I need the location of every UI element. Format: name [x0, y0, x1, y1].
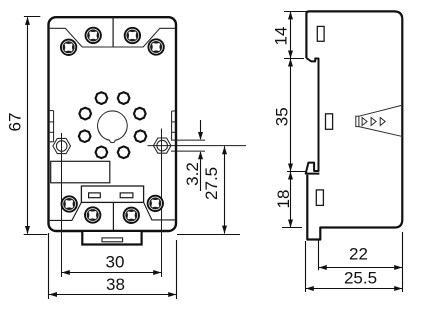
screw bottom inner-right: [124, 208, 139, 223]
hex nut right: [153, 138, 171, 153]
hex nut left: [53, 138, 71, 153]
octagon pin 4: [134, 108, 146, 120]
centre axis line left nut / 30 extension: [61, 133, 63, 277]
tab slot: [102, 238, 123, 242]
screw bottom inner-left: [85, 207, 100, 222]
upper claw: [306, 58, 320, 174]
slot edge extension lines (3.2 slot): [171, 139, 205, 141]
top moulding line left: [50, 28, 175, 47]
left edge ladder: [50, 111, 54, 142]
top centre divider line: [112, 17, 114, 47]
screw bottom outer-right: [148, 196, 163, 211]
release funnel: [356, 106, 401, 137]
octagon pin 5: [79, 130, 91, 142]
octagon pin 8: [118, 146, 130, 158]
dimension 25.5: [306, 241, 403, 292]
side rect middle: [326, 114, 333, 130]
svg-text:18: 18: [274, 190, 293, 209]
middle terminal box: [81, 186, 143, 202]
octagon pin 6: [135, 130, 147, 142]
screw top inner-right: [125, 28, 140, 43]
screw bottom outer-left: [61, 196, 76, 211]
svg-text:3.2: 3.2: [183, 162, 202, 186]
svg-text:67: 67: [6, 113, 25, 132]
bottom tab: [82, 232, 141, 245]
side rect top: [317, 26, 324, 41]
centre circle with keyway: [98, 111, 128, 143]
side dims 14 / 35 / 18 chain: [271, 11, 307, 227]
dimension 22: [319, 232, 403, 292]
bottom moulding left: [50, 202, 82, 220]
bottom moulding right: [144, 202, 175, 220]
svg-text:14: 14: [271, 27, 290, 46]
dimension 30: [62, 253, 162, 276]
centre line through right nut (27.5 reference): [148, 145, 247, 147]
svg-text:38: 38: [106, 275, 125, 294]
dimension 3.2 leader: [183, 120, 203, 191]
socket body outline: [49, 17, 177, 231]
dimension 38: [49, 233, 177, 299]
octagon pin 3: [79, 108, 91, 120]
label rectangle: [51, 161, 110, 183]
svg-text:22: 22: [349, 245, 368, 264]
right edge ladder: [172, 111, 175, 140]
dimension 67: [6, 17, 48, 235]
octagon pin 2: [118, 92, 130, 104]
svg-text:25.5: 25.5: [344, 269, 377, 288]
bottom centre line: [112, 202, 114, 230]
octagon pin 1: [96, 92, 108, 104]
screw top inner-left: [86, 28, 101, 43]
side rect bottom: [316, 190, 323, 206]
side body outline: [306, 11, 402, 239]
screw top outer-left: [61, 40, 76, 55]
svg-text:35: 35: [273, 107, 292, 126]
octagon pin 7: [96, 146, 108, 158]
centre axis line right nut / 30 extension: [161, 129, 163, 278]
svg-text:30: 30: [106, 253, 125, 272]
slot right: [120, 193, 133, 198]
slot left: [89, 193, 101, 198]
dimension 27.5: [177, 146, 240, 234]
svg-text:27.5: 27.5: [202, 167, 221, 200]
screw top outer-right: [148, 39, 163, 54]
